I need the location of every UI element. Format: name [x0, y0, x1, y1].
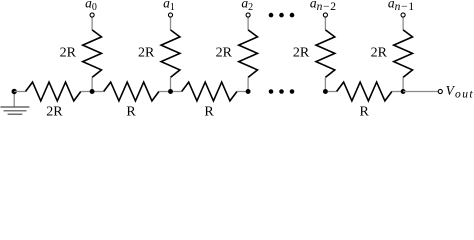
terminal a0 [90, 13, 94, 17]
wire branch an-1 lower lead [402, 77, 404, 91]
svg-text:Vout: Vout [446, 83, 474, 100]
resistor 2R vertical branch an-2 [316, 30, 335, 78]
svg-text:an−2: an−2 [310, 0, 336, 13]
terminal an-2 [323, 13, 327, 17]
svg-text:a0: a0 [85, 0, 97, 13]
wire branch an-2 lower lead [324, 77, 326, 91]
wire branch a1 upper lead [170, 17, 172, 30]
ground [0, 92, 29, 115]
node junction a0 [90, 89, 95, 94]
resistor 2R vertical branch an-1 [394, 30, 413, 78]
svg-text:R: R [204, 104, 214, 119]
resistor 2R vertical branch a0 [83, 30, 102, 78]
terminal Vout [438, 89, 442, 93]
wire branch a2 upper lead [247, 17, 249, 30]
node junction an-2 [323, 89, 328, 94]
node junction a2 [246, 89, 251, 94]
svg-text:an−1: an−1 [388, 0, 414, 13]
svg-text:2R: 2R [293, 45, 310, 60]
svg-text:R: R [126, 104, 136, 119]
ellipsis rail [269, 89, 295, 94]
wire branch a0 lower lead [91, 77, 93, 91]
resistor 2R vertical branch a2 [239, 30, 258, 78]
wire branch a0 upper lead [91, 17, 93, 30]
svg-text:2R: 2R [60, 45, 77, 60]
terminal a2 [246, 13, 250, 17]
resistor 2R vertical branch a1 [161, 30, 180, 78]
svg-text:R: R [360, 104, 370, 119]
node junction an-1 [401, 89, 406, 94]
wire branch a1 lower lead [170, 77, 172, 91]
svg-text:2R: 2R [138, 45, 155, 60]
svg-text:a2: a2 [241, 0, 253, 13]
wire to Vout [403, 91, 438, 93]
svg-text:2R: 2R [46, 104, 63, 119]
terminal a1 [168, 13, 172, 17]
resistor R horizontal R-3 [325, 82, 403, 101]
svg-text:2R: 2R [371, 45, 388, 60]
resistor R horizontal R-1 [92, 82, 170, 101]
svg-text:a1: a1 [163, 0, 175, 13]
wire branch an-1 upper lead [402, 17, 404, 30]
resistor 2R horizontal R2R-bottom [14, 82, 92, 101]
wire branch a2 lower lead [247, 77, 249, 91]
node junction a1 [168, 89, 173, 94]
terminal an-1 [401, 13, 405, 17]
wire branch an-2 upper lead [324, 17, 326, 30]
svg-text:2R: 2R [216, 45, 233, 60]
resistor R horizontal R-2 [171, 82, 249, 101]
ellipsis top [269, 13, 295, 18]
node ground junction [12, 89, 17, 94]
